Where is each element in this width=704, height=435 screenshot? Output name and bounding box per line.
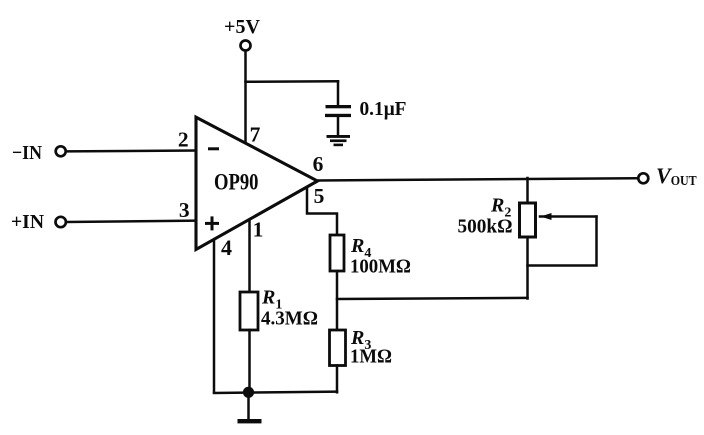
svg-text:2: 2: [178, 128, 189, 152]
resistor R3: [330, 330, 346, 366]
svg-text:1MΩ: 1MΩ: [350, 346, 392, 368]
op-amp U1 OP90: [196, 117, 318, 249]
capacitor C1 0.1uF: [325, 105, 351, 117]
input terminal +IN: [56, 217, 66, 227]
non-inverting input marker: [207, 218, 218, 229]
resistor R1: [240, 292, 258, 330]
wire R2 top lead: [526, 178, 529, 203]
ground (capacitor): [327, 135, 351, 146]
svg-text:+IN: +IN: [11, 211, 45, 233]
wire capacitor top lead: [337, 82, 340, 106]
svg-text:OP90: OP90: [214, 170, 259, 195]
wire pin 5 to R4: [307, 189, 337, 236]
wire junction R4/R3 to R2 bottom: [337, 298, 528, 299]
input terminal -IN: [56, 146, 66, 156]
wire pin 1 to R1: [248, 220, 251, 292]
svg-text:0.1μF: 0.1μF: [360, 98, 407, 120]
resistor R2 (potentiometer): [520, 203, 536, 237]
svg-text:5: 5: [314, 184, 325, 208]
wire wiper loop: [528, 217, 597, 266]
wire R2 bottom lead: [526, 237, 529, 299]
svg-text:7: 7: [250, 123, 261, 147]
wire R1 to ground node: [248, 330, 251, 392]
svg-text:1: 1: [253, 218, 264, 242]
svg-text:+5V: +5V: [224, 16, 261, 38]
output terminal VOUT: [638, 173, 648, 183]
svg-text:3: 3: [179, 198, 190, 222]
wire pin 4 down to rail: [213, 241, 216, 393]
node ground junction: [243, 387, 254, 398]
wire R3 to bottom rail: [336, 366, 339, 393]
svg-text:4: 4: [221, 235, 232, 260]
wire R4 to R3: [336, 271, 339, 330]
power terminal +5V: [241, 41, 251, 51]
resistor R4: [330, 235, 344, 271]
svg-text:4.3MΩ: 4.3MΩ: [261, 308, 318, 330]
svg-text:−IN: −IN: [12, 142, 42, 164]
ground (bottom): [238, 419, 262, 423]
wire ground stub: [247, 392, 250, 419]
svg-text:VOUT: VOUT: [656, 163, 697, 188]
wire output pin 6 to VOUT: [317, 178, 638, 180]
wire +5V branch to capacitor: [246, 80, 339, 83]
svg-text:500kΩ: 500kΩ: [458, 216, 513, 238]
wire bottom rail: [214, 392, 337, 393]
wire -IN to pin 2: [66, 149, 197, 152]
inverting input marker: [210, 147, 218, 150]
svg-text:100MΩ: 100MΩ: [350, 256, 411, 278]
wire capacitor bottom lead: [337, 117, 340, 136]
potentiometer wiper arrow: [540, 213, 597, 220]
wire +IN to pin 3: [66, 221, 197, 222]
svg-text:6: 6: [313, 152, 324, 176]
wire +5V vertical to pin 7: [244, 51, 247, 144]
